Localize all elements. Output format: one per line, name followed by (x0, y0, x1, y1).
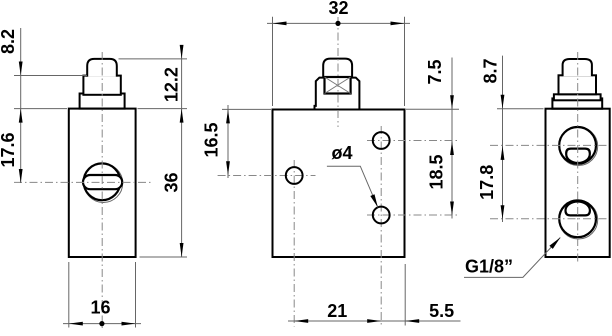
extension line 32 dim left (272, 17, 274, 106)
left view plunger step2 (lower collar) (80, 94, 125, 109)
lower port thread thin circle (559, 200, 598, 239)
arrow right 32 (391, 22, 405, 26)
left view adjustment screw outer circle (84, 163, 121, 200)
upper port thread thin circle (559, 127, 598, 166)
extension line body top right (12.2/36 dims) (138, 108, 188, 110)
left view body rectangle (69, 109, 136, 257)
arrow to dome bottom (19, 62, 23, 76)
svg-text:G1/8”: G1/8” (465, 257, 513, 277)
svg-text:16.5: 16.5 (201, 122, 221, 157)
extension line body bottom-left (16 dim) (68, 262, 70, 328)
extension line body top left (8.2/17.6 dims) (14, 108, 67, 110)
extension line 7.5 dim body top right (406, 108, 459, 110)
svg-text:8.2: 8.2 (0, 29, 18, 54)
svg-text:17.6: 17.6 (0, 132, 18, 167)
dimension line 7.5/18.5 vertical (451, 58, 453, 219)
arrow left 21 (294, 319, 308, 323)
extension line 16.5 dim body top (222, 108, 271, 110)
dimension line 12.2/36 vertical (181, 48, 183, 257)
right view push button dome (563, 59, 592, 76)
left hole vertical centerline (293, 160, 295, 327)
dimension line 8.2/17.6 vertical (20, 28, 22, 183)
extension line dome top right (12.2 dim) (119, 58, 188, 60)
left view screw thread thin circle (84, 164, 123, 203)
dimension line 16.5 vertical (227, 105, 229, 178)
dimension line 21/5.5 (288, 320, 461, 322)
svg-text:7.5: 7.5 (425, 59, 445, 84)
svg-text:8.7: 8.7 (481, 58, 501, 83)
extension line body bottom-right (16 dim) (135, 262, 137, 328)
lower port inner spool shape (566, 201, 590, 215)
arrow to body top (shared 8.2/17.6) (19, 109, 23, 123)
right view plunger step1 (559, 75, 597, 94)
upper port inner spool shape (566, 149, 590, 163)
left view push button dome (87, 59, 117, 77)
arrow to lower hole centerline 18.5 (450, 202, 454, 216)
svg-text:36: 36 (162, 172, 182, 192)
lower port horizontal centerline (490, 218, 609, 220)
middle view push button dome (323, 59, 352, 79)
upper port bore circle (559, 127, 596, 164)
lower port bore circle (559, 200, 596, 237)
upper port horizontal centerline (490, 144, 609, 146)
arrow right 21 / shared 5.5 (367, 319, 381, 323)
manual override X-box (325, 77, 351, 94)
right view body rectangle (546, 109, 610, 257)
extension line body bottom right (36 dim) (140, 256, 188, 258)
arrow left 32 (273, 22, 287, 26)
arrow right 16 (122, 322, 136, 326)
svg-text:5.5: 5.5 (429, 301, 454, 321)
arrow to screw centerline (19, 169, 23, 183)
X-box diagonal 2 (325, 77, 351, 94)
svg-text:18.5: 18.5 (427, 154, 447, 189)
mounting hole left (286, 167, 303, 184)
arrow shared 8.7/17.8 (501, 146, 505, 160)
dimension line 16 horizontal (63, 323, 141, 325)
o4 leader line (327, 166, 378, 207)
right view plunger step2 lower (552, 98, 602, 108)
arrow to body top 8.7 (501, 95, 505, 109)
svg-text:ø4: ø4 (332, 143, 353, 163)
middle view pedestal with chamfered corners (315, 78, 360, 110)
arrow to lower port centerline 17.8 (501, 205, 505, 219)
arrow shared 7.5/18.5 (450, 141, 454, 155)
svg-text:12.2: 12.2 (162, 67, 182, 102)
arrow down 16.5 (226, 161, 230, 175)
dimension line 32 (267, 22, 410, 24)
svg-text:17.8: 17.8 (477, 165, 497, 200)
dimension line 8.7/17.8 vertical (502, 56, 504, 222)
arrow up 16.5 (226, 109, 230, 123)
svg-text:21: 21 (327, 301, 347, 321)
arrow left 16 (69, 322, 83, 326)
G1/8 leader line (464, 238, 560, 278)
G1/8 leader arrowhead (549, 238, 560, 249)
left view vertical centerline (101, 52, 103, 330)
middle view body rectangle (273, 110, 405, 258)
extension line right view body top (8.7 dim) (497, 108, 544, 110)
left view screw horizontal centerline (14, 181, 152, 183)
left hole horizontal centerline (218, 175, 316, 177)
extension line dome bottom (8.2 dim) (14, 75, 87, 77)
arrow to body top 7.5 (450, 95, 454, 109)
middle view vertical centerline (337, 17, 339, 127)
extension line body right bottom (5.5 dim) (404, 264, 406, 326)
X-box diagonal 1 (325, 77, 351, 94)
svg-text:32: 32 (328, 0, 348, 18)
right view vertical centerline (577, 52, 579, 262)
arrow to body bottom (180, 243, 184, 257)
center dot 32 dim (335, 21, 340, 26)
arrow to body top (shared 12.2/36) (180, 109, 184, 123)
center dot 16 dim (99, 321, 104, 326)
arrow to dome top (180, 45, 184, 59)
mounting hole bottom right (373, 207, 390, 224)
right holes horizontal centerline upper (367, 140, 459, 142)
o4 leader arrowhead (370, 194, 378, 207)
arrow 5.5 at body edge (405, 319, 419, 323)
right holes horizontal centerline lower (367, 214, 459, 216)
extension line 32 dim right (404, 17, 406, 106)
right view plunger step2 upper (554, 94, 601, 100)
left view plunger step1 (upper collar) (83, 76, 120, 95)
svg-text:16: 16 (90, 298, 110, 318)
mounting hole top right (373, 132, 390, 149)
right holes vertical centerline (380, 126, 382, 327)
left view screw slot (83, 175, 122, 189)
